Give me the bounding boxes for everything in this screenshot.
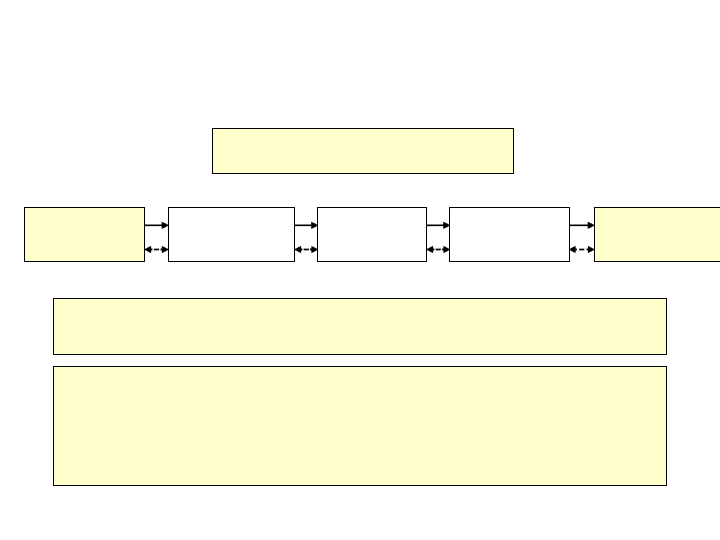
box large (yellow block) xyxy=(53,366,667,486)
arrow solid A-B xyxy=(145,222,169,229)
arrow solid D-E xyxy=(569,222,595,229)
box E (right yellow, clipped) xyxy=(594,207,720,262)
arrow dashed D-E xyxy=(569,246,595,253)
box B (white 1) xyxy=(168,207,295,262)
arrow dashed B-C xyxy=(295,246,319,253)
box top (yellow banner) xyxy=(212,128,514,174)
arrow dashed C-D xyxy=(427,246,451,253)
box wide (yellow strip) xyxy=(53,298,667,355)
arrow dashed A-B xyxy=(145,246,169,253)
arrow solid C-D xyxy=(427,222,451,229)
arrow solid B-C xyxy=(295,222,319,229)
box D (white 3) xyxy=(449,207,570,262)
box C (white 2) xyxy=(317,207,427,262)
box A (left yellow) xyxy=(24,207,145,262)
